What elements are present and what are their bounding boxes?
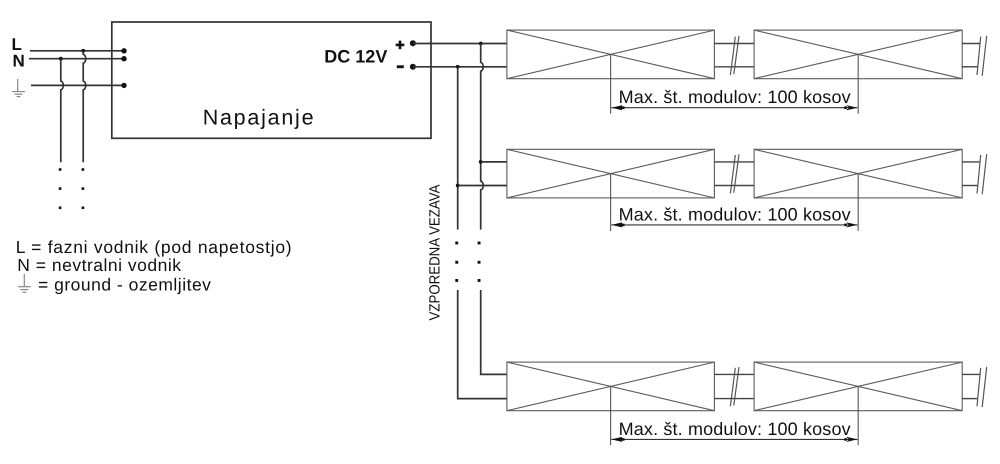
LED module strip A row3: [507, 362, 715, 411]
node N label: [13, 51, 25, 70]
dimension line row2: [611, 224, 857, 226]
LED module strip B row2: [754, 149, 962, 198]
svg-text:Max. št. modulov: 100 kosov: Max. št. modulov: 100 kosov: [619, 87, 851, 107]
row2 tap wire minus: [458, 185, 507, 187]
row 2: [507, 149, 987, 231]
LED module strip A row2: [507, 149, 715, 198]
label DC 12V: [324, 47, 387, 67]
junction dot on N wire: [59, 57, 63, 61]
wire DC minus: [413, 66, 507, 68]
break symbol mid row2: [730, 154, 739, 193]
dimension arrowheads row2: [611, 222, 857, 227]
svg-text:N: N: [13, 51, 25, 70]
minus bus vertical: [457, 67, 459, 230]
svg-text:Napajanje: Napajanje: [203, 105, 316, 129]
dimension extension lines row1: [611, 54, 859, 113]
junction dot minus bus: [456, 65, 460, 69]
dimension label row2: [619, 204, 851, 224]
wire ground: [31, 84, 124, 86]
break symbol end row2: [977, 154, 987, 194]
row2 tap junction dot minus: [456, 184, 460, 188]
plus bus vertical with hops over minus wires: [481, 44, 484, 230]
continuation dots left column: [59, 168, 62, 209]
dimension arrowheads row1: [611, 105, 857, 110]
LED module strip B row3: [754, 362, 962, 411]
bus continuation dots left column: [455, 242, 458, 282]
terminal dot minus: [410, 64, 416, 70]
junction dot on L wire: [81, 49, 85, 53]
row 1: [507, 30, 987, 114]
minus sign: [397, 65, 404, 68]
ground symbol (input): [12, 79, 25, 97]
wire DC plus: [413, 43, 507, 45]
row2 tap junction dot plus: [479, 160, 483, 164]
wire N: [29, 58, 124, 60]
minus bus lower segment to row3: [458, 290, 507, 399]
junction dot L terminal: [121, 48, 126, 53]
svg-text:N = nevtralni vodnik: N = nevtralni vodnik: [17, 255, 181, 275]
svg-text:Max. št. modulov: 100 kosov: Max. št. modulov: 100 kosov: [619, 419, 851, 439]
row 3: [507, 362, 987, 445]
stub wires row3 right: [962, 374, 980, 398]
legend line N: [17, 255, 181, 275]
svg-text:Max. št. modulov: 100 kosov: Max. št. modulov: 100 kosov: [619, 204, 851, 224]
break symbol end row3: [977, 367, 987, 407]
break symbol mid row3: [730, 367, 739, 406]
dimension line row3: [611, 438, 857, 440]
wire vertical drop from N with hop over ground wire: [61, 59, 64, 163]
legend ground symbol: [18, 274, 31, 292]
node L label: [12, 35, 22, 54]
LED module strip B row1: [754, 30, 962, 79]
LED module strip A row1: [507, 30, 715, 79]
dimension arrowheads row3: [611, 437, 857, 442]
junction dot N terminal: [121, 56, 126, 61]
junction dot ground terminal: [121, 83, 126, 88]
svg-text:= ground - ozemljitev: = ground - ozemljitev: [38, 274, 211, 294]
stub wires between modules row2: [714, 162, 754, 186]
legend line L: [16, 237, 293, 257]
break symbol end row1: [977, 36, 987, 76]
dimension label row1: [619, 87, 851, 107]
svg-text:VZPOREDNA VEZAVA: VZPOREDNA VEZAVA: [427, 184, 443, 320]
row2 tap wire plus: [481, 161, 507, 163]
wire L: [30, 50, 124, 52]
label VZPOREDNA VEZAVA (vertical): [427, 184, 443, 320]
plus bus lower segment to row3: [481, 290, 507, 374]
bus continuation dots right column: [478, 242, 481, 282]
legend line ground text: [38, 274, 211, 294]
svg-text:L = fazni vodnik (pod napetost: L = fazni vodnik (pod napetostjo): [16, 237, 293, 257]
stub wires row1 right: [962, 44, 980, 67]
wire vertical drop from L with hops over N and ground wires: [83, 51, 86, 163]
dimension extension lines row3: [611, 386, 859, 445]
stub wires between modules row1: [714, 44, 754, 67]
dimension line row1: [611, 107, 857, 109]
label Napajanje: [203, 105, 316, 129]
dimension label row3: [619, 419, 851, 439]
terminal dot plus: [410, 40, 416, 46]
svg-text:DC 12V: DC 12V: [324, 47, 387, 67]
dimension extension lines row2: [611, 174, 859, 231]
continuation dots right column: [82, 168, 85, 209]
plus sign: [396, 41, 405, 50]
power supply box Napajanje: [112, 22, 431, 138]
stub wires between modules row3: [714, 374, 754, 398]
junction dot plus bus: [479, 42, 483, 46]
break symbol mid row1: [730, 36, 739, 75]
stub wires row2 right: [962, 162, 980, 186]
